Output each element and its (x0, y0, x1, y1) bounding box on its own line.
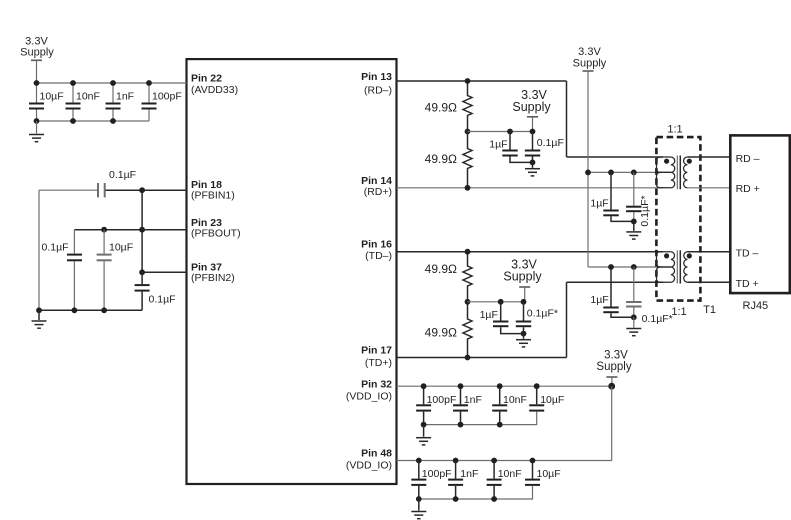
svg-text:Pin 16: Pin 16 (361, 239, 392, 251)
svg-text:0.1µF*: 0.1µF* (642, 313, 673, 325)
svg-text:0.1µF: 0.1µF (537, 137, 564, 149)
svg-text:0.1µF: 0.1µF (42, 242, 69, 254)
svg-text:1nF: 1nF (116, 91, 134, 103)
svg-text:Pin 22: Pin 22 (191, 72, 222, 84)
svg-text:1µF: 1µF (590, 294, 608, 306)
svg-text:49.9Ω: 49.9Ω (425, 101, 457, 115)
svg-text:Pin 48: Pin 48 (361, 447, 392, 459)
svg-text:10nF: 10nF (498, 468, 522, 480)
svg-text:10nF: 10nF (76, 91, 100, 103)
svg-text:1:1: 1:1 (667, 124, 682, 136)
svg-text:Supply: Supply (596, 361, 631, 373)
svg-text:Pin 17: Pin 17 (361, 345, 392, 357)
svg-text:1µF: 1µF (489, 138, 507, 150)
svg-text:(PFBOUT): (PFBOUT) (191, 228, 241, 240)
svg-text:0.1µF*: 0.1µF* (527, 307, 558, 319)
svg-text:100pF: 100pF (422, 468, 452, 480)
svg-text:(VDD_IO): (VDD_IO) (346, 459, 392, 471)
svg-text:100pF: 100pF (427, 394, 457, 406)
svg-text:Supply: Supply (573, 58, 607, 70)
svg-text:0.1µF*: 0.1µF* (639, 195, 651, 226)
svg-text:Supply: Supply (503, 269, 542, 283)
svg-text:1nF: 1nF (460, 468, 478, 480)
svg-text:10µF: 10µF (537, 468, 561, 480)
svg-text:Supply: Supply (512, 100, 551, 114)
svg-text:(AVDD33): (AVDD33) (191, 84, 238, 96)
svg-text:0.1µF: 0.1µF (109, 169, 136, 181)
svg-text:10µF: 10µF (109, 242, 133, 254)
svg-text:10nF: 10nF (503, 394, 527, 406)
svg-text:Pin 13: Pin 13 (361, 71, 392, 83)
svg-text:100pF: 100pF (152, 91, 182, 103)
svg-text:TD –: TD – (736, 247, 759, 259)
svg-text:10µF: 10µF (540, 394, 564, 406)
svg-text:(PFBIN2): (PFBIN2) (191, 272, 235, 284)
svg-text:49.9Ω: 49.9Ω (425, 262, 457, 276)
svg-text:(TD+): (TD+) (365, 357, 392, 369)
svg-text:0.1µF: 0.1µF (149, 294, 176, 306)
svg-text:1µF: 1µF (480, 309, 498, 321)
svg-text:RD –: RD – (736, 153, 760, 165)
svg-text:(TD–): (TD–) (365, 250, 392, 262)
svg-text:3.3V: 3.3V (578, 46, 601, 58)
svg-text:(RD+): (RD+) (364, 186, 392, 198)
svg-text:49.9Ω: 49.9Ω (425, 152, 457, 166)
svg-text:49.9Ω: 49.9Ω (425, 326, 457, 340)
svg-text:RD +: RD + (736, 183, 760, 195)
svg-text:Pin 32: Pin 32 (361, 378, 392, 390)
svg-text:RJ45: RJ45 (743, 300, 769, 312)
svg-text:1nF: 1nF (464, 394, 482, 406)
svg-text:1µF: 1µF (590, 198, 608, 210)
svg-text:Supply: Supply (20, 47, 54, 59)
svg-text:T1: T1 (703, 304, 716, 316)
svg-text:1:1: 1:1 (671, 306, 686, 318)
svg-text:10µF: 10µF (40, 91, 64, 103)
svg-text:(VDD_IO): (VDD_IO) (346, 391, 392, 403)
svg-text:3.3V: 3.3V (604, 349, 628, 361)
svg-text:TD +: TD + (736, 278, 759, 290)
svg-text:(RD–): (RD–) (364, 85, 392, 97)
svg-text:(PFBIN1): (PFBIN1) (191, 190, 235, 202)
